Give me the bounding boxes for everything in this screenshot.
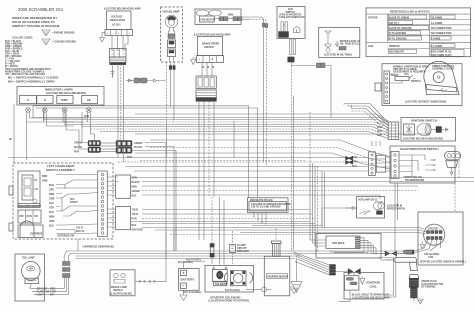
indicator lamp window OIL bbox=[82, 96, 98, 104]
voltage regulator note bbox=[104, 8, 141, 11]
svg-text:COIL: COIL bbox=[368, 45, 374, 48]
svg-text:R TO GROUND: R TO GROUND bbox=[389, 32, 406, 35]
wires to indicator connector bbox=[27, 122, 95, 160]
svg-text:5000 OHMS (CAP): 5000 OHMS (CAP) bbox=[431, 54, 452, 57]
oil level sender box bbox=[319, 27, 360, 57]
svg-text:HEADLAMP: HEADLAMP bbox=[163, 10, 180, 14]
headlamp socket stack bbox=[168, 28, 176, 63]
ground at voltage regulator bbox=[100, 33, 106, 42]
headlamp wires down bbox=[167, 62, 176, 124]
svg-text:BLK W: BLK W bbox=[76, 230, 85, 233]
svg-text:BLK: BLK bbox=[49, 184, 54, 187]
main horizontal bundle B bbox=[33, 114, 388, 139]
gear indicator switch box bbox=[390, 146, 455, 183]
svg-text:FAN MOTOR: FAN MOTOR bbox=[201, 19, 216, 22]
svg-text:R (6 GAUGE): R (6 GAUGE) bbox=[186, 259, 201, 262]
svg-text:K/B TO Y: K/B TO Y bbox=[389, 22, 400, 25]
handlebar switch B bbox=[18, 210, 41, 223]
svg-text:COIL: COIL bbox=[428, 256, 434, 259]
harness 6-pin mating connector (dark) bbox=[116, 141, 132, 154]
indicator connector wire labels bbox=[74, 142, 83, 154]
throttle connector stub wires bbox=[344, 104, 352, 109]
throttle wires to ignition switch bbox=[344, 104, 388, 132]
wires switch area to connector strip bbox=[56, 175, 98, 234]
svg-text:BLK: BLK bbox=[132, 195, 137, 198]
svg-text:SWITCH ASSEMBLY: SWITCH ASSEMBLY bbox=[46, 168, 75, 172]
svg-text:IGNITION SWITCH: IGNITION SWITCH bbox=[411, 119, 437, 123]
bundle D handlebar upper to right bbox=[131, 178, 474, 200]
spark plug cable bbox=[385, 257, 417, 270]
inline connector on regulator wire to headlamp bbox=[126, 78, 166, 83]
inline connector on gear wires bbox=[346, 156, 353, 164]
svg-text:GRN: GRN bbox=[49, 198, 55, 201]
svg-text:(LOCATED BELOW HANDLEBARS): (LOCATED BELOW HANDLEBARS) bbox=[403, 138, 443, 141]
plugwire inline connector bbox=[404, 250, 413, 254]
svg-text:N: N bbox=[27, 99, 29, 102]
brake lamp switch box bbox=[110, 270, 135, 296]
svg-text:BLK (6 GAUGE): BLK (6 GAUGE) bbox=[183, 291, 201, 294]
fan switch box bbox=[277, 6, 305, 38]
main horizontal bundle A (upper) bbox=[33, 106, 258, 198]
gear connector jumpers bbox=[386, 157, 392, 171]
stator bbox=[424, 224, 445, 245]
svg-text:SWITCH: SWITCH bbox=[411, 80, 421, 83]
svg-text:= ENGINE GROUND: = ENGINE GROUND bbox=[52, 32, 75, 35]
svg-text:GRY: GRY bbox=[49, 189, 54, 192]
wire from tail lamp connector up bbox=[77, 239, 79, 251]
svg-text:BATTERY: BATTERY bbox=[181, 278, 195, 282]
brake limiter connector block bbox=[196, 76, 216, 101]
throttle switch bbox=[390, 73, 421, 83]
regulator inline connector stack bbox=[110, 49, 127, 65]
svg-text:BLU/W: BLU/W bbox=[74, 146, 83, 149]
verticals from headlamp/regulator joining bundles bbox=[118, 118, 174, 162]
vertical bundle center-left bbox=[199, 101, 214, 240]
gear switch connector strip bbox=[391, 152, 399, 179]
svg-text:GRN/W: GRN/W bbox=[132, 190, 141, 193]
svg-text:GRN/W: GRN/W bbox=[134, 142, 143, 145]
svg-text:(LOCATED IN FRONT OF BATTERY): (LOCATED IN FRONT OF BATTERY) bbox=[209, 300, 250, 303]
svg-text:RED/WHITE SPLICE: RED/WHITE SPLICE bbox=[250, 199, 273, 202]
handlebar connector strip bbox=[98, 171, 108, 237]
svg-text:REGULATOR: REGULATOR bbox=[110, 19, 125, 22]
svg-text:OVERRIDE: OVERRIDE bbox=[30, 233, 43, 236]
svg-text:BLK/R TO GROUND: BLK/R TO GROUND bbox=[389, 27, 412, 30]
main horizontal bundle C (between mating connectors) bbox=[101, 143, 117, 152]
misc left verticals to handlebar box bbox=[166, 225, 176, 259]
bundle F mid horizontals bbox=[8, 158, 369, 172]
right handlebar stub connector bbox=[375, 83, 381, 91]
svg-text:(LOCATED ON MC): (LOCATED ON MC) bbox=[111, 293, 133, 296]
harness lines right portion bbox=[310, 251, 396, 297]
long harness horizontals right half bbox=[135, 134, 430, 169]
cdi outer enclosure bbox=[316, 234, 381, 259]
svg-text:Y/R R: Y/R R bbox=[132, 213, 139, 216]
solenoid contact plate bbox=[224, 271, 252, 286]
throttle cam drawing bbox=[424, 61, 459, 94]
svg-text:BRN: BRN bbox=[132, 186, 137, 189]
svg-text:COOLANT WHEN HOT): COOLANT WHEN HOT) bbox=[279, 16, 305, 19]
svg-text:ON: ON bbox=[34, 215, 38, 218]
tail lamp wire labels bbox=[30, 284, 69, 297]
ignition coil box bbox=[339, 273, 384, 302]
brake limiter wires down bbox=[202, 62, 215, 76]
voltage regulator VR bbox=[107, 11, 131, 30]
chassis ground symbol bbox=[42, 39, 76, 45]
svg-text:(STATOR LOCATED UNDER FLYWHEEL: (STATOR LOCATED UNDER FLYWHEEL) bbox=[420, 261, 466, 264]
fan switch tube wires bbox=[288, 39, 296, 252]
battery ground bbox=[180, 290, 201, 300]
solenoid coil part bbox=[212, 267, 227, 286]
svg-text:CDI TO GO AND GROUND: CDI TO GO AND GROUND bbox=[251, 206, 281, 209]
svg-text:CDI BOX: CDI BOX bbox=[332, 241, 345, 245]
svg-text:GEAR INDICATOR SWITCH: GEAR INDICATOR SWITCH bbox=[400, 147, 439, 151]
spark plug label bbox=[421, 280, 443, 289]
brake limiter located text bbox=[194, 34, 231, 37]
tail lamp inline connector stack bbox=[63, 256, 70, 294]
indicator lamp window N bbox=[20, 96, 37, 104]
note: wires represented by solid or dashed lines bbox=[12, 16, 60, 28]
connector output wire labels bbox=[127, 142, 143, 159]
ignition switch internals bbox=[404, 124, 449, 136]
svg-text:RESISTANCES (±20% @ 68°F/20°C): RESISTANCES (±20% @ 68°F/20°C) bbox=[390, 11, 430, 14]
svg-text:4P: 4P bbox=[9, 138, 12, 141]
svg-text:SPEEDO AREA): SPEEDO AREA) bbox=[387, 207, 405, 210]
svg-text:HARNESS 2460789-92: HARNESS 2460789-92 bbox=[83, 245, 115, 249]
svg-text:OIL TANK (FULL): OIL TANK (FULL) bbox=[340, 43, 360, 46]
svg-text:PRIMARY: PRIMARY bbox=[389, 45, 400, 48]
svg-text:NO CONNECTION: NO CONNECTION bbox=[431, 32, 452, 35]
wires from indicator lamps bbox=[27, 113, 91, 135]
svg-text:PUR: PUR bbox=[132, 218, 137, 221]
ignition switch connector block bbox=[377, 122, 399, 140]
starter solenoid label bbox=[209, 296, 250, 303]
coil ground bbox=[360, 276, 365, 284]
vertical bundle center-right bbox=[309, 112, 311, 163]
svg-text:OVERRIDE SW: OVERRIDE SW bbox=[57, 235, 75, 238]
svg-text:LR 38-1: LR 38-1 bbox=[112, 24, 121, 27]
svg-text:SIMPLIFY TRACING IN DIAGRAM.: SIMPLIFY TRACING IN DIAGRAM. bbox=[12, 24, 60, 28]
headlamp box bbox=[161, 7, 183, 62]
resistance table bbox=[366, 8, 471, 57]
stator input connector bbox=[396, 250, 414, 254]
brake switch inline connectors bbox=[135, 259, 166, 284]
svg-text:BRN: BRN bbox=[49, 216, 54, 219]
svg-text:BLK/R TO GRN/W: BLK/R TO GRN/W bbox=[389, 17, 410, 20]
lamp bulb R bbox=[42, 108, 47, 113]
lamp bulb OIL bbox=[86, 108, 91, 113]
svg-text:R: R bbox=[208, 66, 210, 69]
svg-text:OFF: OFF bbox=[19, 215, 24, 218]
note: two color wires bbox=[5, 68, 59, 84]
fan motor inline connectors bbox=[214, 14, 242, 21]
lamp bulb TEMP bbox=[62, 108, 67, 113]
inline main fuse bbox=[210, 197, 214, 264]
svg-text:SECONDARY: SECONDARY bbox=[389, 51, 405, 54]
splice leader dots bbox=[253, 212, 266, 224]
verticals right side below gear box bbox=[372, 141, 459, 251]
svg-text:GRY: GRY bbox=[49, 207, 54, 210]
harness connector block upper bbox=[107, 175, 140, 198]
lamp bulb N bbox=[26, 108, 31, 113]
svg-text:GRN: GRN bbox=[42, 180, 48, 183]
svg-text:B (6 GAUGE): B (6 GAUGE) bbox=[225, 289, 240, 292]
ground triangle left of regulator wires bbox=[110, 70, 115, 78]
svg-text:GR: GR bbox=[50, 294, 54, 297]
svg-text:ENG STOP SWITCH: ENG STOP SWITCH bbox=[19, 205, 42, 208]
cdi output connector stack bbox=[330, 265, 336, 276]
svg-text:R: R bbox=[44, 99, 46, 102]
svg-text:0.5 OHMS: 0.5 OHMS bbox=[431, 45, 443, 48]
svg-text:STATOR: STATOR bbox=[428, 228, 438, 231]
stator ground bbox=[420, 241, 425, 249]
wire bundle into cdi stack bbox=[293, 252, 330, 275]
svg-text:HOTLAMP GR-12: HOTLAMP GR-12 bbox=[358, 199, 378, 202]
oil level sender wire and connector bbox=[292, 63, 331, 118]
bowtie connectors near spark cable bbox=[385, 251, 397, 256]
svg-text:BLU/W: BLU/W bbox=[134, 146, 143, 149]
wires below voltage regulator bbox=[112, 36, 128, 50]
harness wire bundle bbox=[64, 251, 330, 259]
left handlebar switch assembly box bbox=[13, 163, 113, 239]
voltage regulator terminal strip bbox=[105, 30, 133, 36]
svg-text:BLK: BLK bbox=[132, 224, 137, 227]
battery positive wire bbox=[183, 259, 205, 269]
svg-text:BLK: BLK bbox=[49, 211, 54, 214]
svg-text:BLU: BLU bbox=[49, 225, 54, 228]
ignition switch box bbox=[401, 118, 456, 142]
starter motor ground bbox=[290, 287, 297, 294]
svg-text:STARTER MOTOR: STARTER MOTOR bbox=[267, 275, 288, 278]
svg-text:= CHASSIS GROUND: = CHASSIS GROUND bbox=[52, 41, 76, 44]
svg-text:SOLENOID: SOLENOID bbox=[215, 283, 228, 286]
svg-text:(LOCATED ON RIGHT HANDLEBAR): (LOCATED ON RIGHT HANDLEBAR) bbox=[405, 101, 446, 104]
brake limiter terminal row bbox=[197, 56, 224, 63]
stator wires down bbox=[415, 240, 441, 253]
bowtie connectors to ignition coil bbox=[336, 269, 361, 276]
svg-text:B: B bbox=[203, 66, 205, 69]
svg-text:BRN: BRN bbox=[42, 175, 47, 178]
engine ground symbol bbox=[42, 30, 75, 36]
svg-text:0.2 OHMS: 0.2 OHMS bbox=[431, 22, 443, 25]
title 2000 SCRAMBLER 2X4 bbox=[18, 7, 64, 12]
cdi box bbox=[326, 236, 360, 249]
throttle assembly box bbox=[382, 64, 462, 106]
stator labels bbox=[420, 253, 466, 264]
battery box bbox=[179, 268, 200, 290]
engine ground left of coil bbox=[291, 258, 302, 293]
spark plug bbox=[409, 275, 419, 302]
svg-text:START: START bbox=[70, 201, 78, 204]
indicator lamps assembly box bbox=[17, 87, 104, 106]
harness label bbox=[83, 245, 115, 249]
spark plug ground bbox=[417, 299, 423, 304]
vertical bundle left of cdi bbox=[310, 163, 326, 252]
svg-text:BREAKER: BREAKER bbox=[237, 250, 249, 253]
svg-text:OF ENGINE): OF ENGINE) bbox=[421, 286, 435, 289]
svg-text:.015: .015 bbox=[404, 73, 409, 76]
brake speed limiter box bbox=[198, 36, 223, 55]
svg-text:(LOCATED BELOW HEADLAMP): (LOCATED BELOW HEADLAMP) bbox=[104, 8, 141, 11]
svg-text:NO CONNECTION: NO CONNECTION bbox=[431, 27, 452, 30]
wire left edge vertical bbox=[9, 104, 14, 163]
svg-text:TAIL LAMP: TAIL LAMP bbox=[22, 256, 35, 259]
svg-text:STATOR: STATOR bbox=[368, 17, 378, 20]
ignition coil note bbox=[352, 294, 390, 300]
svg-text:LO: LO bbox=[35, 188, 38, 191]
starter solenoid box bbox=[205, 266, 254, 293]
gear switch contacts bbox=[399, 155, 436, 177]
throttle connector strip bbox=[384, 71, 390, 104]
svg-text:LIGHT: LIGHT bbox=[37, 294, 45, 297]
fan motor assembly box bbox=[195, 9, 241, 24]
indicator wires joining bundle B bbox=[33, 106, 82, 128]
svg-text:GRN/W: GRN/W bbox=[74, 142, 83, 145]
note: color code list bbox=[5, 36, 33, 69]
handlebar lower wires bbox=[56, 225, 85, 238]
svg-text:(LOCATED IN OIL TANK): (LOCATED IN OIL TANK) bbox=[324, 54, 352, 57]
indicator lamp 6-pin connector (dark) bbox=[88, 141, 101, 153]
starter motor bbox=[264, 228, 290, 296]
indicator lamp window R bbox=[37, 96, 53, 104]
fuse/starter area verticals bbox=[220, 197, 225, 265]
svg-text:COIL: COIL bbox=[370, 285, 377, 289]
stator enclosure box bbox=[418, 212, 463, 265]
svg-text:W TO GROUND: W TO GROUND bbox=[389, 37, 407, 40]
handlebar switch contacts bbox=[56, 180, 88, 216]
svg-text:PUR: PUR bbox=[74, 151, 79, 154]
svg-text:BRN: BRN bbox=[49, 193, 54, 196]
svg-text:2000 SCRAMBLER 2X4: 2000 SCRAMBLER 2X4 bbox=[18, 7, 64, 12]
cdi routing wires bbox=[330, 238, 403, 255]
handlebar override button bbox=[18, 221, 43, 238]
tail lamp box bbox=[15, 254, 45, 301]
svg-text:Y/R B: Y/R B bbox=[132, 209, 139, 212]
hotlamp feed wire bbox=[322, 207, 357, 226]
handlebar wire label column bbox=[42, 175, 55, 228]
svg-text:NO = SWITCH NORMALLY OPEN: NO = SWITCH NORMALLY OPEN bbox=[8, 80, 55, 84]
gear switch 3-pin oval connector bbox=[445, 152, 461, 176]
svg-text:GRN: GRN bbox=[49, 220, 55, 223]
20 amp circuit breaker bbox=[230, 231, 249, 264]
svg-text:LIMITER: LIMITER bbox=[204, 46, 214, 49]
svg-text:TEMP: TEMP bbox=[61, 99, 68, 102]
svg-text:GRY/GRN: GRY/GRN bbox=[132, 229, 143, 232]
svg-text:(LOCATED BELOW HANDLEBARS): (LOCATED BELOW HANDLEBARS) bbox=[46, 92, 86, 95]
battery label R 6 gauge bbox=[178, 261, 193, 264]
svg-text:COLOR CODE:: COLOR CODE: bbox=[12, 36, 33, 40]
svg-text:BLU: BLU bbox=[49, 202, 54, 205]
svg-text:.20 OHMS: .20 OHMS bbox=[431, 17, 443, 20]
headlamp bulb bbox=[165, 15, 178, 28]
handlebar light switch bbox=[18, 171, 41, 208]
indicator lamp window TEMP bbox=[57, 96, 73, 104]
harness connector block lower bbox=[107, 207, 143, 232]
handlebar box left edge tabs bbox=[9, 186, 13, 231]
solenoid output connector bbox=[225, 287, 271, 292]
tail lamp bulb bbox=[22, 262, 41, 284]
gear harness mating connectors bbox=[369, 152, 386, 176]
svg-text:BLK/W: BLK/W bbox=[132, 181, 141, 184]
red/white splice box bbox=[247, 198, 290, 213]
svg-text:GRN: GRN bbox=[132, 177, 138, 180]
svg-text:0 OHMS: 0 OHMS bbox=[431, 37, 441, 40]
pilot lamp box bbox=[357, 197, 406, 218]
wires entering stator enclosure bbox=[419, 228, 427, 235]
svg-text:OIL: OIL bbox=[87, 99, 92, 102]
svg-text:BRN: BRN bbox=[228, 14, 233, 17]
connector output wires to verticals bbox=[132, 143, 176, 259]
brake limiter ground bbox=[191, 58, 197, 65]
svg-text:HI: HI bbox=[35, 179, 38, 182]
gear connector wire labels bbox=[352, 156, 358, 168]
wires from regulator connector down bbox=[113, 64, 124, 150]
svg-text:RUN: RUN bbox=[27, 215, 32, 218]
bundle E handlebar lower to right bbox=[131, 210, 420, 235]
wire fan motor to fan switch bbox=[242, 17, 268, 166]
